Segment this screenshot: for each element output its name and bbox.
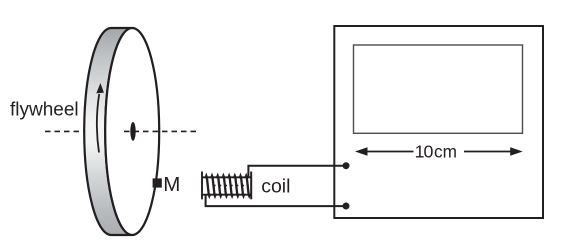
coil: top winding peaks [204,173,248,179]
dashed axis line (right segment) [124,130,197,132]
axle (centre dot) [130,122,135,141]
svg-text:flywheel: flywheel [10,100,79,121]
upper terminal dot [343,162,350,169]
magnet M (small square on rim) [153,178,162,187]
coil: winding legs [207,177,249,196]
coil: bottom winding peaks [207,194,251,199]
svg-text:coil: coil [261,175,290,197]
coil: top boundary line [202,176,251,178]
wire: coil top to upper terminal [248,166,346,177]
svg-text:cm: cm [434,142,457,162]
oscilloscope screen [354,45,523,133]
flywheel rim highlight along front edge [114,30,133,63]
dimension arrow 10 cm [355,147,523,155]
coil: winding back-loop marks [214,185,244,187]
flywheel rim (cylinder side) [84,28,132,235]
coil: left end bar [201,172,203,200]
lower terminal dot [343,203,350,210]
coil: right end bar [250,172,252,200]
coil: bottom boundary line [202,194,251,196]
rotation arrow on rim [96,83,104,153]
oscilloscope box [334,26,543,218]
svg-text:M: M [163,173,180,196]
dashed axis line (left segment) [45,130,84,132]
flywheel front face [105,28,159,235]
svg-text:10: 10 [415,142,434,162]
wire: coil bottom to lower terminal [206,196,346,207]
